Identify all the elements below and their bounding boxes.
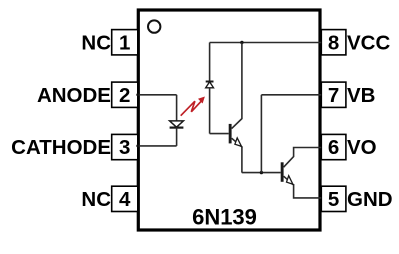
wire: VB horizontal to pin 7 [261,94,321,96]
svg-text:8: 8 [328,32,339,55]
light arrow (red zigzag) [181,101,202,116]
svg-text:7: 7 [328,84,339,107]
transistor Q2 emitter [284,176,322,198]
pin 6 box [321,134,346,159]
pin 2 box [112,82,138,107]
wire: VB vertical [260,95,262,173]
pin 5 box [321,186,346,211]
light arrow head [198,97,205,104]
svg-text:NC: NC [81,32,111,55]
pin 8 box [321,30,346,55]
pin 1 box [112,30,138,55]
transistor Q2 base bar [281,162,284,182]
wire: LED cathode vertical [176,128,178,146]
transistor Q1 collector [232,43,242,129]
wire: anode stub pin2 to LED [138,94,177,96]
svg-text:ANODE: ANODE [37,84,111,107]
svg-text:VB: VB [347,84,375,107]
wire: LED anode vertical [176,95,178,121]
svg-text:6: 6 [328,136,339,159]
transistor Q2 collector [284,148,322,168]
svg-text:5: 5 [328,188,339,211]
pin 4 box [112,186,138,211]
svg-text:CATHODE: CATHODE [11,136,111,159]
pin-1 indicator circle [148,20,160,32]
photodiode D2 cathode bar [206,81,214,83]
transistor Q1 emitter arrowhead [235,138,242,147]
svg-text:2: 2 [119,84,130,107]
wire: VCC top rail [210,42,322,44]
svg-text:VCC: VCC [347,32,390,55]
svg-text:VO: VO [347,136,377,159]
LED D1 cathode bar [170,126,184,128]
wire: photodiode top lead [209,43,211,82]
LED D1 triangle [170,121,184,127]
wire: photodiode bottom lead [209,88,211,134]
svg-text:1: 1 [119,32,130,55]
transistor Q1 base bar [229,124,232,143]
transistor Q2 emitter arrowhead [287,176,293,185]
IC body U1 (6N139 package outline) [138,10,320,230]
transistor Q1 emitter [232,138,242,172]
photodiode D2 triangle [206,82,214,88]
wire: cathode return to pin3 [138,145,177,147]
wire: Q1 emitter to Q2 base [242,172,281,174]
svg-text:3: 3 [119,136,130,159]
node: rail junction dot at Q1 collector [240,41,243,44]
pin 3 box [112,134,138,159]
wire: base lead to Q1 [210,133,229,135]
node: VB junction dot [260,171,263,174]
node: pin3 border junction dot [136,144,139,147]
svg-text:4: 4 [119,188,131,211]
node: pin2 border junction dot [136,93,139,96]
svg-text:NC: NC [81,188,111,211]
svg-text:6N139: 6N139 [192,204,257,229]
svg-text:GND: GND [347,188,393,211]
pin 7 box [321,82,346,107]
